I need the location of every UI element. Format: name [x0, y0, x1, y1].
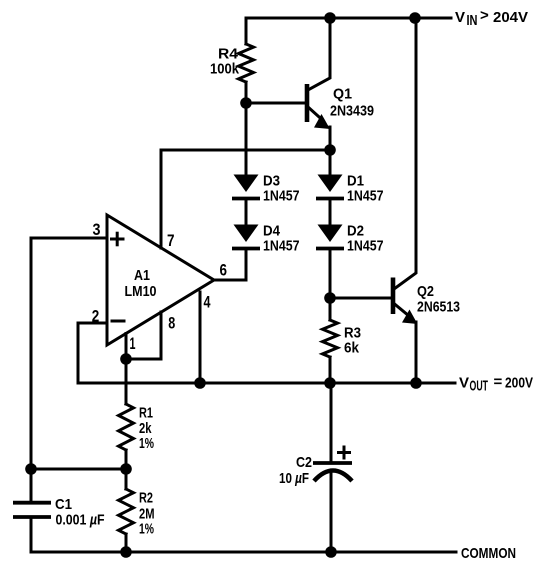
node: R1/R2/C1 divider junction [120, 463, 132, 475]
svg-text:2N6513: 2N6513 [417, 299, 460, 316]
wire: V_IN rail to R4 top [245, 18, 248, 44]
label C1 0.001 uF [55, 496, 105, 529]
wire: pin 2 feedback to V_OUT rail [78, 323, 107, 383]
label Q2 2N6513 [417, 283, 460, 316]
label A1 LM10 [125, 267, 157, 300]
svg-text:1%: 1% [139, 521, 154, 538]
label D3 1N457 [263, 173, 300, 205]
wire: D2 cathode to Q2 base node [329, 249, 332, 299]
svg-text:Q1: Q1 [333, 86, 352, 103]
svg-text:=: = [494, 374, 503, 391]
wire: D1 anode from Q1 emitter node [329, 150, 332, 175]
svg-text:204V: 204V [493, 9, 528, 26]
svg-text:100k: 100k [210, 61, 240, 78]
wire: pin 8 to reference node [126, 312, 161, 359]
svg-text:1N457: 1N457 [347, 238, 384, 255]
label D4 1N457 [263, 223, 300, 255]
label Q1 2N3439 [330, 86, 374, 120]
wire: COMMON rail [31, 551, 456, 554]
wire: pin 1 to reference node [125, 334, 128, 360]
svg-text:Q2: Q2 [417, 283, 434, 300]
svg-text:3: 3 [93, 220, 101, 239]
resistor R2 [125, 469, 128, 489]
capacitor C1 [13, 503, 51, 517]
label D2 1N457 [347, 223, 384, 255]
wire: D3 cathode to D4 anode [245, 199, 248, 225]
label D1 1N457 [347, 173, 384, 205]
node: Q2 collector junction on V_IN rail [409, 12, 421, 24]
wire: pin 3 to left rail [31, 237, 107, 240]
diode D1 1N457 [316, 175, 344, 199]
wire: V_OUT rail [78, 382, 455, 385]
wire: left rail down to C1 [30, 238, 33, 501]
C2 polarity + mark [339, 447, 350, 458]
label R3 6k [344, 325, 361, 357]
svg-text:LM10: LM10 [125, 283, 157, 300]
svg-text:V: V [459, 375, 469, 392]
wire: C2 bottom to COMMON rail [330, 474, 333, 552]
op-amp + input symbol [112, 233, 124, 245]
label R1 2k 1% [139, 405, 154, 453]
resistor R4 [239, 44, 254, 82]
node: pin1/pin8/R1 junction [120, 353, 132, 365]
svg-text:10 µF: 10 µF [279, 470, 309, 487]
svg-text:1N457: 1N457 [347, 188, 384, 205]
op-amp A1 LM10 [107, 215, 214, 345]
svg-text:6: 6 [220, 261, 228, 280]
diode D4 1N457 [232, 225, 260, 249]
svg-text:4: 4 [204, 293, 211, 312]
svg-text:C2: C2 [296, 454, 312, 471]
op-amp - input symbol [112, 320, 124, 323]
svg-text:1N457: 1N457 [263, 238, 300, 255]
wire: D4 cathode down to op-amp output pin 6 [214, 249, 246, 281]
net label V_OUT = 200V [459, 374, 533, 395]
wire: pin 4 to V_OUT rail [199, 292, 202, 383]
node: pin 4 junction on V_OUT rail [194, 377, 206, 389]
svg-text:>: > [480, 7, 489, 24]
node: Q1 emitter / D1 anode / pin7 junction [324, 144, 336, 156]
svg-text:200V: 200V [505, 375, 533, 392]
svg-text:6k: 6k [344, 340, 360, 357]
label R2 2M 1% [139, 490, 155, 538]
node: C1 top junction on left rail [25, 463, 37, 475]
svg-text:1%: 1% [139, 435, 154, 452]
wire: C1 bottom to COMMON rail [30, 519, 33, 553]
transistor Q1 2N3439 [246, 18, 330, 150]
svg-text:A1: A1 [134, 267, 150, 284]
svg-text:7: 7 [167, 231, 175, 250]
resistor R3 [329, 298, 332, 320]
transistor Q2 2N6513 [330, 18, 418, 383]
svg-text:0.001 µF: 0.001 µF [56, 512, 105, 529]
capacitor C2 (polarized) [313, 463, 352, 481]
node: R3 / C2 junction on V_OUT rail [324, 377, 336, 389]
label R4 100k [210, 46, 240, 78]
wire: D1 cathode to D2 anode [329, 199, 332, 225]
label C2 10 uF [279, 454, 312, 487]
svg-text:1N457: 1N457 [263, 188, 300, 205]
resistor R1 [125, 359, 128, 404]
svg-text:1: 1 [130, 334, 136, 353]
wire: V_OUT node down to C2 [330, 383, 333, 462]
svg-text:R2: R2 [139, 490, 153, 507]
node: C2 bottom junction on COMMON rail [325, 546, 337, 558]
node: R4 / Q1 base / D3 junction [240, 97, 252, 109]
svg-text:OUT: OUT [470, 378, 489, 395]
svg-text:R1: R1 [139, 405, 153, 422]
diode D3 1N457 [232, 175, 260, 199]
diode D2 1N457 [316, 225, 344, 249]
svg-text:IN: IN [467, 12, 478, 29]
node: R4 top / Q1 collector junction on V_IN rail [324, 12, 336, 24]
svg-text:V: V [455, 9, 465, 26]
node: D2 / R3 / Q2 base junction [324, 292, 336, 304]
wire: top V_IN rail [246, 17, 451, 20]
svg-text:COMMON: COMMON [461, 545, 516, 562]
node: R2 bottom junction on COMMON rail [120, 546, 132, 558]
net label V_IN > 204V [455, 7, 528, 29]
svg-text:8: 8 [168, 314, 175, 333]
wire: pin 7 supply line to Q1 emitter node [161, 150, 330, 248]
wire: divider node to left rail [31, 468, 126, 471]
wire: R4 bottom through Q1 base node down to D3 anode [245, 82, 248, 174]
svg-text:C1: C1 [55, 496, 72, 513]
node: Q2 emitter junction on V_OUT rail [410, 377, 422, 389]
svg-text:2N3439: 2N3439 [330, 103, 374, 120]
